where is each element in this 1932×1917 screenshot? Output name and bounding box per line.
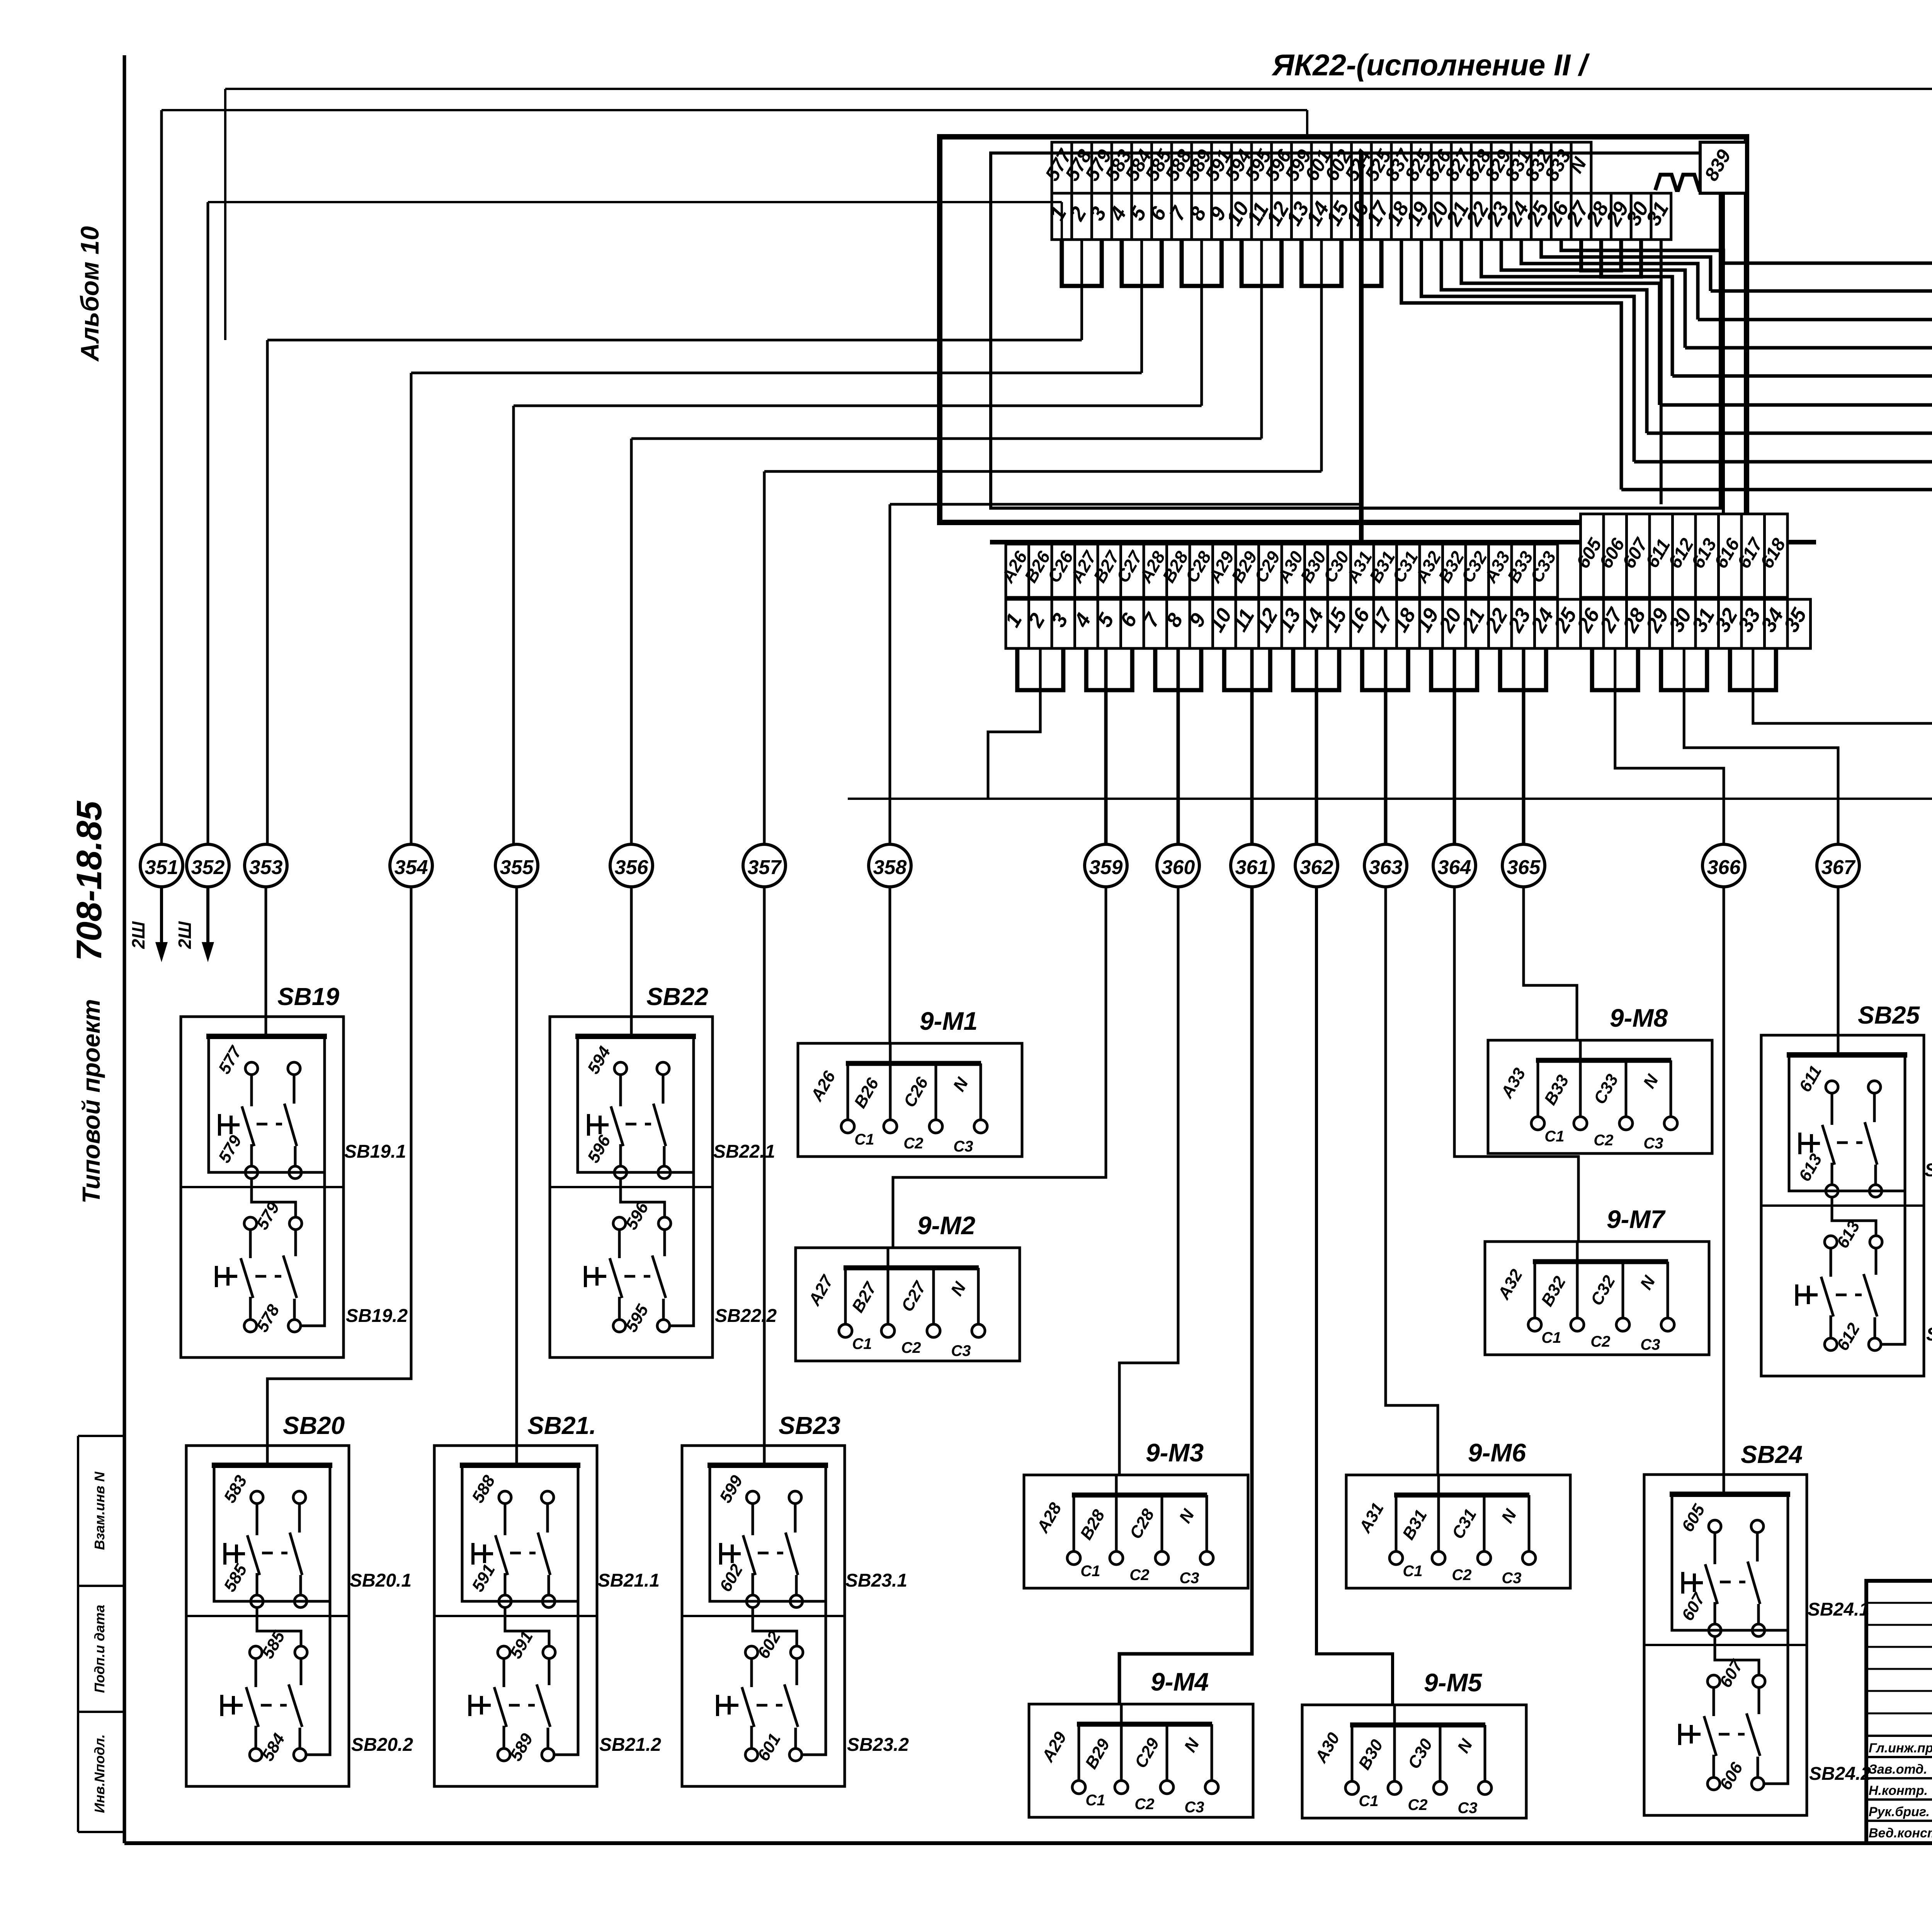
svg-text:355: 355 bbox=[500, 856, 534, 879]
cable marker 354 bbox=[390, 844, 432, 887]
svg-text:596: 596 bbox=[622, 1199, 652, 1233]
cable marker 367 bbox=[1817, 844, 1859, 887]
svg-text:360: 360 bbox=[1162, 856, 1195, 879]
wires XT1 middle terminals to stair bus bbox=[1080, 240, 1083, 340]
terminal strip XT1 label 839 box bbox=[1700, 142, 1747, 193]
svg-text:В29: В29 bbox=[1082, 1735, 1114, 1772]
svg-text:9-М6: 9-М6 bbox=[1468, 1438, 1527, 1467]
svg-text:364: 364 bbox=[1438, 856, 1471, 879]
svg-text:С27: С27 bbox=[898, 1277, 930, 1315]
svg-text:С2: С2 bbox=[1408, 1796, 1427, 1813]
terminal strip XT2 top bar bbox=[990, 540, 1816, 544]
wire from terminal 31 label 839 down bbox=[1660, 240, 1663, 504]
svg-text:2Ш: 2Ш bbox=[175, 921, 195, 949]
svg-text:А28: А28 bbox=[1033, 1499, 1066, 1536]
pushbutton switch SB25 bbox=[1761, 1035, 1924, 1376]
terminal strip XT1 comb jumper 28-30 bbox=[1655, 175, 1724, 190]
svg-text:591: 591 bbox=[468, 1561, 499, 1595]
pushbutton switch SB20 bbox=[186, 1446, 349, 1786]
svg-text:607: 607 bbox=[1678, 1589, 1709, 1624]
wire top bus line to YAK22 bbox=[225, 89, 1932, 1170]
svg-text:С3: С3 bbox=[951, 1342, 971, 1359]
svg-text:С2: С2 bbox=[1590, 1333, 1610, 1350]
svg-text:С33: С33 bbox=[1590, 1071, 1622, 1107]
wire from label 839 box down to strip XT2 bbox=[1722, 193, 1725, 514]
svg-text:358: 358 bbox=[873, 856, 907, 879]
svg-text:В32: В32 bbox=[1537, 1273, 1570, 1310]
svg-text:366: 366 bbox=[1707, 856, 1741, 879]
svg-text:Альбом 10: Альбом 10 bbox=[75, 226, 104, 362]
svg-text:SB20.2: SB20.2 bbox=[351, 1735, 413, 1755]
svg-text:С2: С2 bbox=[1129, 1567, 1149, 1584]
svg-text:9-М1: 9-М1 bbox=[920, 1007, 978, 1035]
svg-text:С1: С1 bbox=[1403, 1563, 1422, 1580]
motor plug 9-М3 bbox=[1024, 1475, 1248, 1588]
svg-text:362: 362 bbox=[1300, 856, 1333, 879]
cable marker 355 bbox=[495, 844, 538, 887]
page frame bottom border bbox=[124, 1841, 1932, 1845]
pushbutton switch SB22 bbox=[550, 1017, 713, 1357]
svg-text:SB20: SB20 bbox=[283, 1412, 345, 1439]
svg-text:585: 585 bbox=[220, 1561, 251, 1595]
svg-text:С1: С1 bbox=[1359, 1793, 1378, 1810]
svg-text:Подп.и дата: Подп.и дата bbox=[92, 1605, 107, 1693]
cabinet YAK22 inner box top edge bbox=[991, 151, 1720, 155]
svg-text:С28: С28 bbox=[1126, 1505, 1158, 1542]
svg-text:Вед.констр: Вед.констр bbox=[1869, 1826, 1932, 1840]
jumper loops under XT2 terminals bbox=[1017, 648, 1063, 690]
wire XT2 terminal 2 branch bbox=[988, 648, 1040, 799]
svg-text:С31: С31 bbox=[1448, 1506, 1480, 1542]
cable marker 365 bbox=[1502, 844, 1545, 887]
svg-text:578: 578 bbox=[253, 1301, 283, 1335]
wire 355 to SB21 bbox=[515, 887, 518, 1446]
svg-text:SB22: SB22 bbox=[646, 983, 708, 1010]
svg-text:С2: С2 bbox=[1594, 1132, 1613, 1149]
cable 351 arrow 2Sh bbox=[160, 887, 163, 954]
svg-text:С3: С3 bbox=[1502, 1570, 1521, 1587]
svg-text:Рук.бриг.: Рук.бриг. bbox=[1869, 1805, 1930, 1819]
svg-text:С2: С2 bbox=[1452, 1567, 1471, 1584]
wire XT2 terminal 33 to circle 368 bbox=[1753, 648, 1932, 844]
svg-text:SB19: SB19 bbox=[277, 983, 340, 1010]
svg-text:9-М7: 9-М7 bbox=[1607, 1205, 1666, 1233]
jumper loops under XT1 terminals 27-31 bbox=[1581, 240, 1621, 270]
svg-text:613: 613 bbox=[1795, 1151, 1826, 1185]
svg-text:SB20.1: SB20.1 bbox=[350, 1570, 412, 1591]
svg-text:SB19.2: SB19.2 bbox=[346, 1306, 408, 1326]
svg-text:579: 579 bbox=[253, 1199, 283, 1233]
pushbutton switch SB21. bbox=[434, 1446, 597, 1786]
svg-text:А33: А33 bbox=[1497, 1065, 1529, 1102]
wire 363 to motor plug 9-M6 bbox=[1386, 887, 1438, 1475]
svg-text:С1: С1 bbox=[1085, 1792, 1105, 1809]
svg-text:С3: С3 bbox=[1640, 1336, 1660, 1353]
svg-text:SB23.2: SB23.2 bbox=[847, 1735, 909, 1755]
svg-text:С3: С3 bbox=[1458, 1800, 1477, 1817]
cable marker 356 bbox=[610, 844, 653, 887]
svg-text:С3: С3 bbox=[1184, 1799, 1204, 1816]
cable stub thick vertical at label 602 bbox=[1359, 154, 1364, 542]
svg-text:612: 612 bbox=[1833, 1320, 1864, 1354]
cable marker 358 bbox=[869, 844, 911, 887]
svg-text:С1: С1 bbox=[1544, 1128, 1564, 1145]
wire 361 to motor plug 9-M4 bbox=[1119, 887, 1252, 1705]
svg-text:С1: С1 bbox=[852, 1335, 872, 1352]
cable marker 359 bbox=[1085, 844, 1127, 887]
svg-text:С26: С26 bbox=[900, 1074, 932, 1111]
svg-text:А29: А29 bbox=[1038, 1728, 1071, 1766]
motor plug 9-М4 bbox=[1029, 1704, 1253, 1817]
svg-text:9-М5: 9-М5 bbox=[1424, 1668, 1483, 1697]
cable marker 360 bbox=[1157, 844, 1199, 887]
cable marker 357 bbox=[743, 844, 786, 887]
svg-text:N: N bbox=[1175, 1506, 1198, 1526]
svg-text:С2: С2 bbox=[1134, 1796, 1154, 1813]
wire drops to circles 351-358 bbox=[160, 110, 163, 844]
cable marker 351 bbox=[140, 844, 183, 887]
svg-text:В30: В30 bbox=[1355, 1736, 1387, 1773]
motor plug 9-М1 bbox=[798, 1043, 1022, 1157]
motor plug 9-М6 bbox=[1346, 1475, 1570, 1588]
cabinet YAK22 outer box bbox=[940, 137, 1747, 522]
svg-text:SB24: SB24 bbox=[1741, 1441, 1803, 1468]
svg-text:ЯК22-(исполнение II /: ЯК22-(исполнение II / bbox=[1271, 48, 1590, 82]
terminal strip XT2 label boxes bbox=[1006, 544, 1029, 597]
svg-text:588: 588 bbox=[468, 1472, 499, 1506]
stair bus wires to cable circles 351-358 bbox=[162, 109, 1307, 111]
svg-text:599: 599 bbox=[716, 1472, 747, 1506]
svg-text:367: 367 bbox=[1821, 856, 1856, 879]
svg-text:Гл.инж.пр.: Гл.инж.пр. bbox=[1869, 1741, 1932, 1755]
cabinet YAK22 inner box bbox=[991, 153, 1720, 508]
motor plug 9-М5 bbox=[1302, 1705, 1526, 1818]
svg-text:Н.контр.: Н.контр. bbox=[1869, 1783, 1928, 1798]
wire 356 to SB22 bbox=[630, 887, 633, 1017]
svg-text:SB25.2: SB25.2 bbox=[1926, 1324, 1932, 1345]
wire 362 to motor plug 9-M5 bbox=[1316, 887, 1393, 1706]
svg-text:SB21.2: SB21.2 bbox=[599, 1735, 661, 1755]
svg-text:9-М2: 9-М2 bbox=[917, 1211, 976, 1240]
wire 364 to motor plug 9-M7 bbox=[1454, 887, 1578, 1242]
svg-text:С32: С32 bbox=[1587, 1272, 1619, 1309]
wire 357 to SB23 bbox=[763, 887, 766, 1446]
svg-text:SB23.1: SB23.1 bbox=[845, 1570, 907, 1591]
svg-text:SB24.1: SB24.1 bbox=[1808, 1599, 1869, 1620]
svg-text:Зав.отд.: Зав.отд. bbox=[1869, 1762, 1927, 1777]
svg-text:С1: С1 bbox=[1080, 1563, 1100, 1580]
long bus under XT2 bbox=[848, 798, 1932, 800]
svg-text:594: 594 bbox=[584, 1043, 614, 1077]
svg-text:611: 611 bbox=[1796, 1062, 1826, 1095]
svg-text:N: N bbox=[1454, 1736, 1476, 1756]
svg-text:В33: В33 bbox=[1541, 1072, 1573, 1108]
svg-text:602: 602 bbox=[716, 1561, 747, 1595]
wires XT2 middles down to circles 359-365 bbox=[1104, 648, 1108, 844]
svg-text:2Ш: 2Ш bbox=[128, 921, 148, 949]
svg-text:В31: В31 bbox=[1399, 1507, 1431, 1543]
svg-text:С1: С1 bbox=[1541, 1329, 1561, 1346]
svg-text:361: 361 bbox=[1235, 856, 1269, 879]
svg-text:А32: А32 bbox=[1494, 1266, 1527, 1303]
svg-text:Взам.инв N: Взам.инв N bbox=[92, 1471, 107, 1550]
svg-text:605: 605 bbox=[1678, 1501, 1709, 1535]
svg-text:591: 591 bbox=[506, 1628, 537, 1662]
motor plug 9-М8 bbox=[1488, 1040, 1712, 1153]
svg-text:352: 352 bbox=[191, 856, 225, 879]
svg-text:В28: В28 bbox=[1077, 1506, 1109, 1543]
motor plug 9-М2 bbox=[796, 1248, 1020, 1361]
svg-text:SB23: SB23 bbox=[779, 1412, 840, 1439]
title block frame bbox=[1866, 1581, 1932, 1843]
svg-text:365: 365 bbox=[1507, 856, 1541, 879]
svg-text:9-М4: 9-М4 bbox=[1151, 1667, 1209, 1696]
pushbutton switch SB23 bbox=[682, 1446, 845, 1786]
svg-text:В26: В26 bbox=[850, 1075, 883, 1111]
wire 354 to SB20 bbox=[267, 887, 411, 1446]
svg-text:SB25.1: SB25.1 bbox=[1925, 1160, 1932, 1180]
cable marker 362 bbox=[1295, 844, 1338, 887]
svg-text:SB21.1: SB21.1 bbox=[598, 1570, 660, 1591]
svg-text:С1: С1 bbox=[854, 1131, 874, 1148]
svg-text:613: 613 bbox=[1833, 1218, 1864, 1252]
svg-text:579: 579 bbox=[215, 1132, 245, 1166]
svg-text:N: N bbox=[1498, 1506, 1520, 1526]
svg-text:N: N bbox=[1180, 1735, 1203, 1755]
svg-text:356: 356 bbox=[615, 856, 649, 879]
svg-text:363: 363 bbox=[1369, 856, 1403, 879]
svg-text:351: 351 bbox=[145, 856, 179, 879]
wire 358 to motor plug 9-M1 bbox=[889, 887, 891, 1043]
svg-text:584: 584 bbox=[258, 1730, 289, 1764]
svg-text:585: 585 bbox=[258, 1628, 289, 1662]
terminal strip XT1 terminal number row bbox=[1052, 193, 1072, 240]
svg-text:SB22.2: SB22.2 bbox=[715, 1306, 777, 1326]
svg-text:9-М8: 9-М8 bbox=[1610, 1004, 1668, 1032]
svg-text:N: N bbox=[947, 1279, 970, 1299]
svg-text:SB19.1: SB19.1 bbox=[344, 1141, 406, 1162]
svg-text:С3: С3 bbox=[1643, 1135, 1663, 1152]
page frame left border bbox=[123, 55, 126, 1843]
cable marker 361 bbox=[1231, 844, 1273, 887]
svg-text:601: 601 bbox=[754, 1730, 784, 1764]
bus wires XT1 terminals 18-26 to solenoid column bbox=[1561, 240, 1723, 263]
svg-text:SB24.2: SB24.2 bbox=[1809, 1764, 1871, 1784]
pushbutton switch SB24 bbox=[1644, 1475, 1807, 1815]
wire XT2 terminal 30 to circle 367 bbox=[1684, 648, 1838, 844]
svg-text:353: 353 bbox=[249, 856, 283, 879]
cable marker 363 bbox=[1364, 844, 1407, 887]
wire 353 to SB19 bbox=[265, 887, 267, 1017]
terminal strip XT2 terminal boxes bbox=[1006, 599, 1029, 648]
wire 360 to motor plug 9-M3 bbox=[1119, 887, 1178, 1475]
svg-text:Инв.Nподл.: Инв.Nподл. bbox=[92, 1734, 107, 1813]
wire 365 to motor plug 9-M8 bbox=[1524, 887, 1577, 1040]
svg-text:С3: С3 bbox=[953, 1138, 973, 1155]
wire XT2 terminal 27 to circle 366 bbox=[1615, 648, 1724, 844]
svg-text:602: 602 bbox=[754, 1628, 784, 1662]
cable marker 364 bbox=[1433, 844, 1476, 887]
wire 367 to SB25 bbox=[1837, 887, 1840, 1035]
svg-text:SB22.1: SB22.1 bbox=[713, 1141, 775, 1162]
svg-text:N: N bbox=[1636, 1272, 1659, 1293]
pushbutton switch SB19 bbox=[181, 1017, 344, 1357]
cable marker 353 bbox=[245, 844, 287, 887]
svg-text:9-М3: 9-М3 bbox=[1146, 1438, 1204, 1467]
motor plug 9-М7 bbox=[1485, 1242, 1709, 1355]
svg-text:596: 596 bbox=[584, 1132, 614, 1166]
svg-text:С3: С3 bbox=[1179, 1570, 1199, 1587]
svg-text:А31: А31 bbox=[1355, 1500, 1388, 1536]
svg-text:С30: С30 bbox=[1404, 1735, 1436, 1772]
cable 352 arrow 2Sh bbox=[206, 887, 209, 954]
left margin stamp column bbox=[77, 1436, 79, 1832]
cable marker 352 bbox=[187, 844, 229, 887]
svg-text:N: N bbox=[1639, 1071, 1662, 1092]
svg-text:Типовой проект: Типовой проект bbox=[77, 999, 105, 1203]
svg-text:606: 606 bbox=[1716, 1759, 1747, 1793]
svg-text:577: 577 bbox=[215, 1043, 246, 1077]
svg-text:583: 583 bbox=[220, 1472, 251, 1506]
svg-text:708-18.85: 708-18.85 bbox=[70, 800, 109, 961]
svg-text:595: 595 bbox=[622, 1301, 652, 1335]
svg-text:N: N bbox=[949, 1074, 972, 1095]
jumper loops under XT1 terminals 1-17 bbox=[1062, 240, 1102, 286]
cable marker 366 bbox=[1702, 844, 1745, 887]
svg-text:А30: А30 bbox=[1311, 1729, 1344, 1766]
svg-text:С2: С2 bbox=[903, 1135, 923, 1152]
wire 359 to motor plug 9-M2 bbox=[893, 887, 1106, 1248]
svg-text:В27: В27 bbox=[848, 1278, 881, 1316]
svg-text:357: 357 bbox=[748, 856, 782, 879]
svg-text:SB21.: SB21. bbox=[527, 1412, 596, 1439]
svg-text:354: 354 bbox=[395, 856, 428, 879]
svg-text:SB25: SB25 bbox=[1858, 1001, 1920, 1029]
svg-text:С29: С29 bbox=[1131, 1735, 1163, 1771]
svg-text:С2: С2 bbox=[901, 1339, 921, 1356]
wire 366 to SB24 bbox=[1723, 887, 1725, 1475]
svg-text:А26: А26 bbox=[807, 1068, 840, 1105]
svg-text:А27: А27 bbox=[805, 1271, 838, 1309]
svg-text:359: 359 bbox=[1089, 856, 1123, 879]
svg-text:589: 589 bbox=[506, 1730, 537, 1764]
terminal strip XT1 label row frame bbox=[1052, 142, 1072, 193]
